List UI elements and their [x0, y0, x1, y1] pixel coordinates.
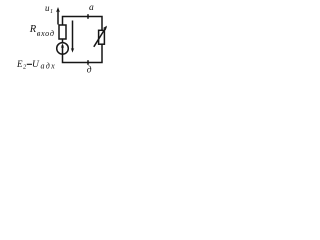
svg-text:Е: Е	[16, 59, 23, 69]
variable resistor arrow head	[103, 26, 107, 31]
wire top	[63, 17, 103, 31]
background	[0, 0, 113, 87]
svg-text:R: R	[29, 24, 37, 35]
source arrow head	[61, 43, 64, 48]
svg-text:1: 1	[50, 9, 53, 15]
resistor R vhod	[59, 25, 66, 39]
variable resistor arrow	[94, 27, 106, 47]
node a tick	[87, 14, 89, 19]
current arrow down	[72, 21, 74, 50]
wire rect to circle	[62, 39, 64, 43]
svg-text:U: U	[32, 60, 40, 70]
source E2 circle	[57, 43, 69, 55]
svg-text:вход: вход	[37, 29, 55, 38]
source arrow	[62, 45, 64, 54]
wire bottom	[63, 44, 103, 63]
svg-text:адх: адх	[41, 62, 57, 71]
node b tick	[87, 60, 89, 65]
svg-text:д: д	[87, 65, 92, 76]
u1 voltage arrow	[57, 11, 59, 25]
svg-text:а: а	[89, 3, 94, 13]
variable resistor rect	[99, 30, 105, 44]
